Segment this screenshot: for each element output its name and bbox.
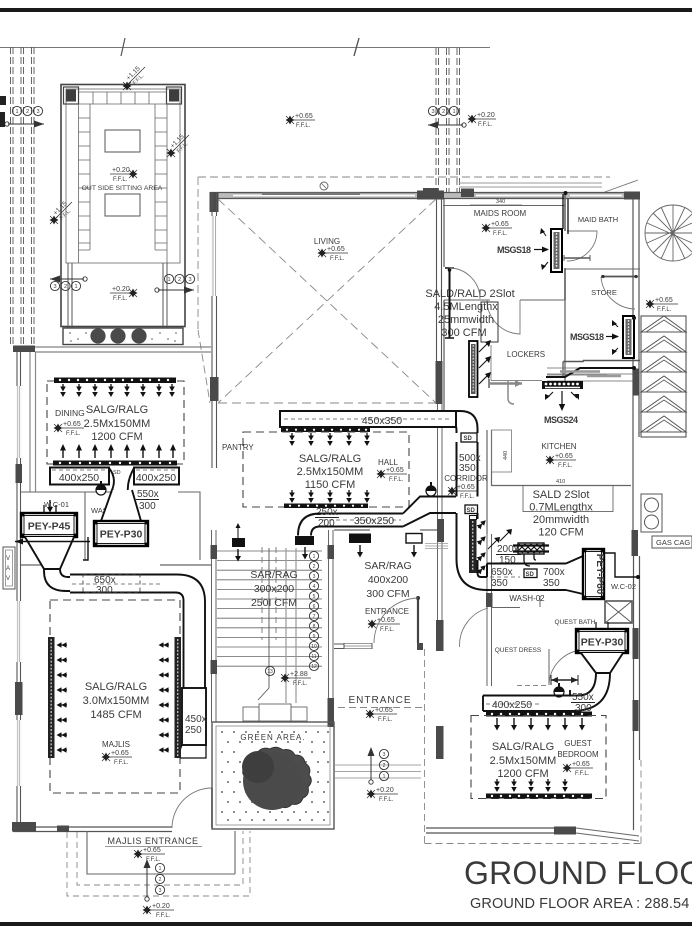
wall right of door — [417, 643, 423, 650]
svg-text:3.0Mx150MM: 3.0Mx150MM — [83, 695, 150, 707]
svg-text:F.F.L.: F.F.L. — [478, 122, 493, 128]
kitchen counter gray lines — [560, 370, 600, 373]
arrow left below sitting — [50, 278, 84, 280]
hall FFL — [377, 470, 386, 479]
svg-text:+0.20: +0.20 — [112, 167, 130, 174]
majlis FFL — [102, 753, 111, 762]
tree trunk circle — [243, 752, 301, 810]
kitchen island rect — [523, 486, 613, 512]
svg-text:+0.20: +0.20 — [152, 903, 170, 910]
chevron stair column right — [641, 316, 686, 437]
svg-text:LOCKERS: LOCKERS — [507, 350, 545, 359]
riser continues behind slot — [457, 519, 478, 573]
FFL +0.20 upper — [129, 170, 138, 179]
svg-text:ENTRANCE: ENTRANCE — [348, 695, 411, 706]
sitting table 2 — [105, 194, 140, 216]
svg-text:F.F.L.: F.F.L. — [380, 627, 395, 633]
majlis left slot arrows — [57, 642, 68, 648]
hall dashed zone box — [243, 432, 409, 507]
sitting terrace outer wall — [61, 85, 185, 327]
duct 400x250 right — [134, 468, 179, 485]
wall below planter — [13, 346, 35, 353]
guest bath wall — [545, 608, 605, 624]
corner column left — [64, 87, 79, 104]
porch walk lines — [335, 765, 421, 778]
svg-text:+0.65: +0.65 — [655, 297, 673, 304]
svg-text:150: 150 — [499, 555, 516, 566]
svg-text:300 CFM: 300 CFM — [441, 327, 486, 339]
column left-bottom of living — [210, 377, 219, 401]
sitting table 1 — [105, 130, 140, 152]
hall top diffuser bar — [281, 428, 370, 433]
tick 2 on setback line — [121, 38, 125, 56]
diag arrows at SALD slot — [500, 531, 510, 541]
living X dashed diagonal 2 — [218, 199, 436, 403]
stair bottom steps — [243, 707, 259, 721]
tick on setback line — [354, 38, 359, 56]
MSGS18 maids arrows — [542, 230, 546, 236]
FFL marker +0.65 upper living — [286, 116, 295, 125]
svg-text:3: 3 — [188, 277, 191, 283]
svg-text:2: 2 — [442, 109, 445, 115]
svg-text:F.F.L.: F.F.L. — [379, 797, 394, 803]
stair walk line — [258, 548, 269, 700]
svg-text:SALD 2Slot: SALD 2Slot — [533, 489, 590, 501]
svg-text:300: 300 — [139, 501, 156, 512]
kitchen counter left — [492, 430, 512, 472]
svg-text:GAS CAG: GAS CAG — [656, 538, 690, 547]
porch dashed boundary right — [424, 649, 426, 843]
svg-text:400x250: 400x250 — [59, 472, 99, 484]
FFL marker +0.20 near center grid — [468, 115, 477, 124]
seat band right — [155, 104, 167, 263]
svg-text:9: 9 — [313, 634, 316, 640]
svg-text:GREEN AREA.: GREEN AREA. — [240, 733, 305, 742]
svg-text:GROUND FLOOR: GROUND FLOOR — [464, 855, 692, 891]
funnel to PEY-P30 — [101, 490, 141, 521]
svg-text:LIVING: LIVING — [314, 237, 340, 246]
right outer wall upper — [633, 199, 639, 316]
svg-text:2.5Mx150MM: 2.5Mx150MM — [297, 466, 364, 478]
wash-02 bottom wall — [491, 608, 493, 687]
terrace step rect 1 — [87, 831, 235, 874]
svg-text:OUT SIDE SITTING AREA: OUT SIDE SITTING AREA — [82, 185, 163, 192]
living X dashed diagonal 1 — [218, 199, 436, 403]
svg-text:+0.20: +0.20 — [477, 112, 495, 119]
svg-text:+0.65: +0.65 — [143, 847, 161, 854]
hall bottom arrows — [289, 490, 295, 503]
dining dashed zone box — [47, 381, 184, 464]
svg-text:F.F.L.: F.F.L. — [293, 681, 308, 687]
svg-text:1: 1 — [74, 284, 77, 290]
left wall window — [212, 216, 217, 296]
corner column right — [167, 87, 182, 104]
store top wall — [565, 268, 640, 270]
parapet lines top right — [459, 183, 602, 187]
left grid bubbles 1 2 3 — [12, 106, 42, 115]
leg wall left — [68, 263, 72, 328]
maid bath door arc — [567, 231, 597, 261]
majlis slot bar right — [175, 637, 182, 758]
dining bottom arrows — [60, 444, 66, 458]
svg-text:+0.65: +0.65 — [111, 750, 129, 757]
svg-text:A: A — [6, 566, 10, 572]
duct 350x250 — [320, 514, 403, 527]
riser duct 500x350 — [457, 442, 478, 497]
corridor FFL — [448, 487, 457, 496]
MSGS18 grille store — [623, 316, 634, 358]
svg-text:MSGS18: MSGS18 — [570, 332, 604, 342]
SD box 1 — [461, 433, 477, 442]
svg-text:F.F.L.: F.F.L. — [378, 717, 393, 723]
majlis door arc — [172, 788, 212, 828]
left wall of living — [212, 192, 217, 420]
svg-text:MAJLIS: MAJLIS — [102, 740, 130, 749]
svg-text:F.F.L.: F.F.L. — [296, 123, 311, 129]
foyer top wall — [334, 529, 437, 531]
200x150 hatched duct — [518, 543, 544, 554]
svg-text:PEY-P30: PEY-P30 — [581, 637, 624, 649]
rotated level +1.15 top — [123, 62, 150, 89]
guest bottom arrows — [494, 779, 500, 792]
store door leaf — [601, 276, 638, 278]
foyer right wall lower — [438, 530, 443, 651]
svg-text:2: 2 — [159, 877, 162, 883]
svg-text:GROUND FLOOR AREA : 288.54 SQM: GROUND FLOOR AREA : 288.54 SQM — [470, 896, 692, 912]
duct 650x300 — [70, 575, 163, 593]
svg-text:1: 1 — [383, 774, 386, 780]
svg-text:13: 13 — [267, 669, 273, 675]
guest right wall — [634, 556, 640, 830]
svg-text:PEY-P30: PEY-P30 — [100, 529, 143, 541]
svg-text:1: 1 — [15, 109, 18, 115]
svg-text:PANTRY: PANTRY — [222, 443, 254, 452]
svg-text:QUEST DRESS: QUEST DRESS — [495, 647, 542, 654]
svg-text:2: 2 — [178, 277, 181, 283]
FFL +0.65 right of store — [646, 300, 655, 309]
column top-left of living — [210, 192, 219, 212]
svg-text:400x200: 400x200 — [368, 574, 408, 586]
svg-text:400x250: 400x250 — [492, 699, 532, 711]
svg-text:1: 1 — [159, 866, 162, 872]
SALD slot bar — [469, 341, 478, 397]
PEY-P30 unit — [94, 521, 148, 546]
svg-text:MSGS24: MSGS24 — [544, 415, 578, 425]
wc-01 wall vertical — [84, 492, 86, 560]
overhang dashed top — [198, 176, 610, 178]
svg-text:250I CFM: 250I CFM — [251, 597, 297, 609]
Y branch — [109, 468, 134, 498]
svg-text:700x: 700x — [543, 567, 565, 578]
sitting inner border — [66, 89, 180, 263]
seat band top — [79, 92, 168, 104]
majlis door leaf — [211, 788, 213, 828]
svg-text:+0.65: +0.65 — [375, 707, 393, 714]
column top-right of living — [417, 191, 444, 200]
guest dress/bath door arc — [549, 650, 583, 685]
svg-text:350: 350 — [491, 578, 508, 589]
svg-text:F.F.L.: F.F.L. — [156, 913, 171, 919]
leg wall right — [163, 263, 167, 328]
left gridline pair A — [11, 47, 14, 345]
hopper below PEY-P45 — [25, 537, 74, 569]
svg-text:1: 1 — [167, 277, 170, 283]
stair treads — [217, 548, 322, 703]
svg-text:SALG/RALG: SALG/RALG — [299, 453, 361, 465]
guest right window 1 — [633, 628, 639, 659]
svg-text:F.F.L.: F.F.L. — [113, 177, 128, 183]
svg-text:KITCHEN: KITCHEN — [541, 442, 576, 451]
svg-text:0.7MLengthx: 0.7MLengthx — [529, 502, 593, 514]
svg-text:F.F.L.: F.F.L. — [575, 771, 590, 777]
dining top arrows — [60, 384, 66, 397]
svg-text:25mmwidth: 25mmwidth — [438, 314, 494, 326]
svg-text:2: 2 — [64, 284, 67, 290]
left wall window 3 — [17, 720, 21, 786]
center grid arrow (left pointing) — [428, 124, 463, 126]
svg-text:SAR/RAG: SAR/RAG — [364, 560, 411, 572]
svg-text:550x: 550x — [572, 692, 594, 703]
transition to PEY-P60 — [566, 556, 583, 594]
seat band left — [79, 104, 91, 263]
arrow right of sitting — [158, 289, 194, 291]
svg-text:1200 CFM: 1200 CFM — [497, 768, 548, 780]
svg-text:+0.65: +0.65 — [491, 221, 509, 228]
svg-text:SALG/RALG: SALG/RALG — [85, 681, 147, 693]
elbow down to stair diffuser — [298, 514, 320, 536]
svg-text:2.5Mx150MM: 2.5Mx150MM — [490, 755, 557, 767]
planter dots — [69, 332, 177, 342]
wash room box — [178, 492, 200, 560]
maids door leaf slot — [449, 268, 451, 338]
center gridline pair C — [457, 48, 460, 193]
right outer wall mid — [633, 316, 639, 530]
MSGS24 grille — [542, 381, 583, 389]
svg-text:11: 11 — [311, 654, 316, 660]
svg-text:+0.65: +0.65 — [386, 467, 404, 474]
left gridline pair B — [21, 47, 24, 345]
maids top window segments — [476, 194, 622, 198]
main door arc — [374, 598, 418, 643]
stair diffuser box — [295, 536, 314, 545]
entrance inner FFL — [368, 620, 377, 629]
svg-text:+2.88: +2.88 — [290, 671, 308, 678]
guest dim arrow — [551, 679, 578, 681]
terrace FFL +0.20 — [143, 906, 152, 915]
dark wall segment right mid — [633, 369, 640, 396]
drop box C — [406, 534, 422, 544]
svg-text:350x250: 350x250 — [354, 515, 394, 527]
svg-text:450x350: 450x350 — [362, 415, 402, 427]
svg-text:BEDROOM: BEDROOM — [557, 750, 599, 759]
terrace bubbles — [155, 863, 164, 894]
left wall dark block 2 — [15, 682, 23, 715]
corridor window sill — [425, 544, 448, 549]
kitchen left wall — [487, 430, 492, 534]
guest dashed zone box — [471, 716, 606, 799]
svg-text:+0.65: +0.65 — [555, 453, 573, 460]
foyer right wall — [438, 404, 443, 530]
green area border — [212, 722, 334, 829]
lockers top wall — [444, 299, 565, 301]
guest bedroom FFL — [563, 764, 572, 773]
guest elbow down-left — [570, 673, 610, 711]
wc-01 wall horizontal — [21, 491, 121, 493]
svg-text:1150 CFM: 1150 CFM — [305, 479, 356, 491]
svg-text:+0.65: +0.65 — [457, 484, 475, 491]
terrace step rect 3 dashed — [67, 831, 250, 896]
parapet diagonal top right — [602, 180, 638, 193]
maid bath towel rail — [564, 257, 590, 259]
column right-bottom of living — [436, 361, 443, 404]
svg-text:2.5Mx150MM: 2.5Mx150MM — [84, 418, 151, 430]
pantry left wall — [212, 420, 217, 468]
majlis riser 450x250 — [182, 688, 206, 745]
svg-text:+0.65: +0.65 — [295, 113, 313, 120]
kitchen exhaust pipe — [489, 382, 522, 385]
hall bottom diffuser bar — [284, 504, 368, 509]
svg-text:CORRIDOR: CORRIDOR — [444, 474, 488, 483]
main door leaf — [417, 598, 419, 643]
branch down from 200x150 — [524, 554, 536, 566]
planter shrubs — [90, 328, 105, 343]
svg-text:120 CFM: 120 CFM — [538, 527, 583, 539]
majlis dashed zone box — [50, 600, 180, 793]
stair handrail lines — [286, 548, 296, 703]
PEY-P45 inlet stub — [44, 505, 56, 513]
terrace FFL — [134, 850, 143, 859]
svg-text:SALG/RALG: SALG/RALG — [492, 741, 554, 753]
FFL +0.20 lower — [129, 289, 138, 298]
svg-text:W.C-02: W.C-02 — [611, 582, 636, 591]
svg-text:MAIDS ROOM: MAIDS ROOM — [474, 209, 527, 218]
svg-text:200: 200 — [318, 518, 335, 529]
svg-text:MSGS18: MSGS18 — [497, 245, 531, 255]
kitchen bottom wall — [492, 485, 632, 487]
svg-text:3: 3 — [431, 109, 434, 115]
terrace up arrow — [146, 862, 148, 897]
riser duct lower — [457, 513, 478, 519]
svg-text:410: 410 — [556, 479, 565, 485]
svg-text:F.F.L.: F.F.L. — [330, 256, 345, 262]
svg-text:650x: 650x — [491, 567, 513, 578]
stair FFL +2.88 — [281, 674, 290, 683]
foyer bottom wall left — [334, 644, 344, 649]
stair step bubbles — [265, 551, 318, 675]
foyer window sill — [344, 644, 372, 649]
guest right window 2 — [633, 700, 639, 731]
svg-text:V: V — [6, 576, 10, 582]
svg-text:PEY-P45: PEY-P45 — [28, 521, 71, 533]
svg-text:SALD/RALD 2Slot: SALD/RALD 2Slot — [425, 288, 514, 300]
spiral stair — [645, 205, 692, 261]
guest dress top wall — [492, 607, 521, 609]
riser to slot connector — [177, 745, 206, 758]
svg-text:F.F.L.: F.F.L. — [389, 477, 404, 483]
elbow to 650x350 — [457, 559, 491, 590]
left grid arrow — [8, 123, 44, 125]
svg-text:F.F.L.: F.F.L. — [113, 296, 128, 302]
svg-text:300: 300 — [96, 585, 113, 596]
maids FFL — [482, 224, 491, 233]
svg-text:1200 CFM: 1200 CFM — [91, 431, 142, 443]
guest top diffuser bar — [486, 712, 592, 717]
vent circle above top wall — [320, 182, 328, 190]
planter box — [63, 328, 183, 345]
porch bubbles 3 2 1 — [379, 749, 388, 780]
left wall window 2 — [17, 601, 21, 662]
svg-text:SD: SD — [467, 508, 476, 514]
guest duct 400x250 — [483, 690, 570, 711]
guest top arrows — [494, 718, 500, 731]
damper T — [96, 481, 106, 495]
top wall band — [210, 193, 640, 199]
left wall window 1 — [17, 386, 21, 458]
kitchen counter top — [547, 368, 636, 381]
bottom border line — [0, 922, 692, 926]
MSGS24 arrows — [547, 392, 553, 398]
terrace step rect 2 dashed — [77, 831, 243, 885]
living FFL — [318, 249, 327, 258]
svg-text:+0.65: +0.65 — [572, 761, 590, 768]
top window sill bar — [262, 193, 360, 196]
svg-text:+0.20: +0.20 — [112, 286, 130, 293]
svg-text:SD: SD — [526, 572, 535, 578]
maids duct stub — [563, 194, 568, 234]
svg-text:400x250: 400x250 — [136, 472, 176, 484]
svg-text:4: 4 — [313, 584, 316, 590]
guest bottom wall — [426, 828, 576, 833]
left wall dark block 1 — [16, 464, 23, 483]
riser channel box — [481, 302, 498, 342]
svg-text:1485 CFM: 1485 CFM — [90, 709, 141, 721]
wall left of lockers — [443, 300, 445, 420]
svg-text:F.F.L.: F.F.L. — [114, 760, 129, 766]
svg-text:5: 5 — [313, 594, 316, 600]
svg-text:20mmwidth: 20mmwidth — [533, 514, 589, 526]
svg-text:SAR/RAG: SAR/RAG — [250, 569, 297, 581]
svg-text:250x: 250x — [316, 507, 338, 518]
svg-text:SD: SD — [113, 470, 121, 476]
svg-text:HALL: HALL — [378, 458, 399, 467]
left outer wall — [17, 352, 21, 830]
PEY-P60 connector wire — [604, 553, 637, 577]
majlis slot bar left — [48, 637, 55, 758]
maids left wall — [443, 199, 445, 267]
connector line with arrows — [15, 541, 90, 543]
green area dots — [221, 731, 329, 821]
guest wing left wall — [487, 534, 492, 686]
corridor slot bar — [469, 519, 477, 573]
drop box A — [232, 538, 245, 547]
svg-text:MAID BATH: MAID BATH — [578, 215, 618, 224]
Z transition to corridor duct — [403, 497, 456, 527]
lockers door arc — [487, 300, 520, 334]
center grid bubbles 3 2 1 — [428, 106, 458, 115]
svg-text:350: 350 — [543, 578, 560, 589]
svg-text:F.F.L.: F.F.L. — [558, 463, 573, 469]
duct 400x250 left — [50, 468, 109, 485]
porch dashed line — [338, 707, 426, 709]
svg-text:3: 3 — [36, 109, 39, 115]
duct 450x350 — [280, 411, 456, 427]
shaft X box — [605, 601, 632, 623]
svg-text:3: 3 — [53, 284, 56, 290]
drop box B — [349, 534, 371, 544]
majlis bottom dark blocks — [12, 822, 36, 832]
tree canopy scribble — [243, 747, 312, 807]
SALD slot arrows — [479, 343, 488, 352]
